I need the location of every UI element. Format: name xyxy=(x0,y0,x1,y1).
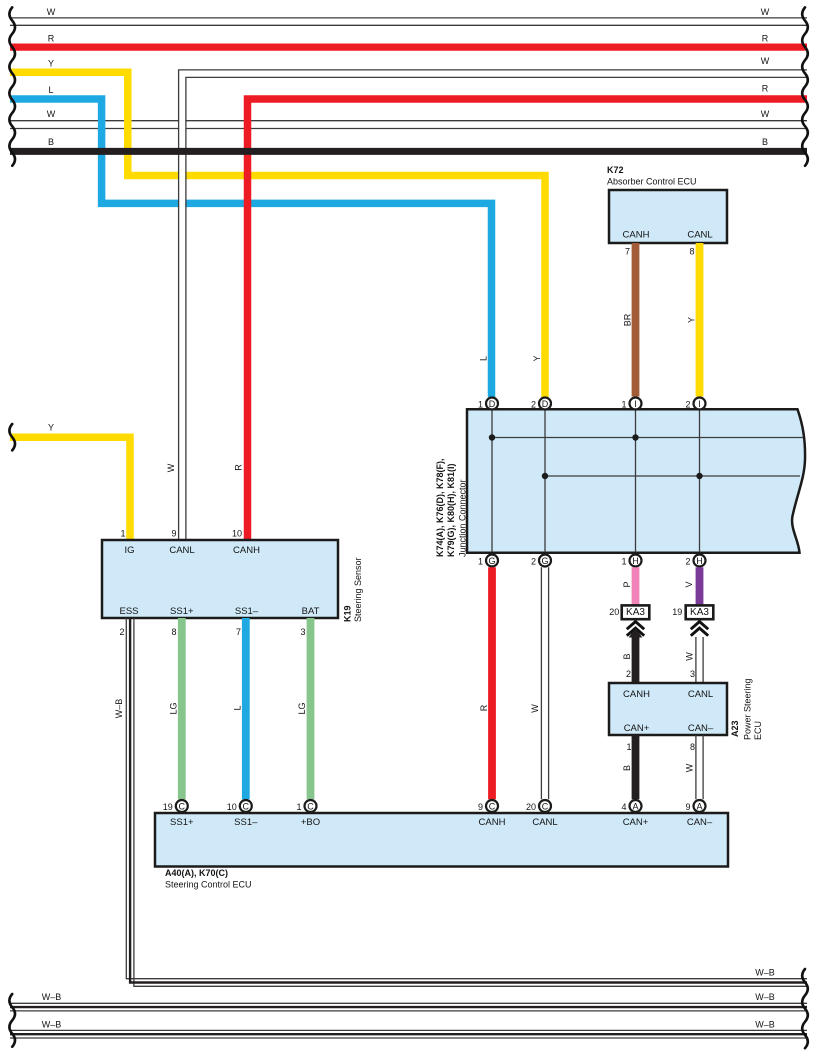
wire break squiggle left top xyxy=(9,7,15,165)
svg-text:3: 3 xyxy=(300,627,305,637)
svg-text:L: L xyxy=(479,356,489,361)
svg-text:R: R xyxy=(48,34,55,44)
svg-text:CAN+: CAN+ xyxy=(624,723,650,734)
svg-text:20: 20 xyxy=(526,802,536,812)
svg-text:K19: K19 xyxy=(343,605,353,622)
svg-text:1: 1 xyxy=(621,399,626,409)
ECU A40/K70 Steering Control ECU xyxy=(155,813,728,889)
wire R (red from right edge, bends down to steering sensor CANH) xyxy=(248,84,808,541)
svg-text:BAT: BAT xyxy=(302,606,320,617)
svg-text:Absorber Control ECU: Absorber Control ECU xyxy=(607,177,697,187)
svg-text:W: W xyxy=(530,704,540,713)
svg-text:Y: Y xyxy=(48,59,54,69)
junction internal wire 1-I to 1-H xyxy=(635,410,637,552)
svg-text:W–B: W–B xyxy=(755,968,775,978)
svg-text:7: 7 xyxy=(625,247,630,257)
wire R (upper red, full width) xyxy=(10,34,807,48)
svg-text:B: B xyxy=(622,765,632,771)
svg-text:A40(A), K70(C): A40(A), K70(C) xyxy=(165,868,228,878)
svg-text:W–B: W–B xyxy=(755,992,775,1002)
shield arrow chevrons below KA3 pin 20 xyxy=(627,622,644,636)
wire W (white pair, chevron to power steering CANL pin 3) xyxy=(685,637,704,683)
pin circle 4-A xyxy=(621,800,641,812)
svg-text:K79(G), K80(H), K81(I): K79(G), K80(H), K81(I) xyxy=(446,463,456,557)
pin circle 1-H xyxy=(621,555,641,567)
wire V (violet, junction 2-H to connector KA3 pin 19) xyxy=(684,567,700,605)
svg-text:19: 19 xyxy=(672,607,682,617)
ECU A23 Power Steering ECU xyxy=(609,678,763,740)
svg-text:CANH: CANH xyxy=(623,230,650,241)
pin circle 1-D xyxy=(478,398,498,410)
svg-text:B: B xyxy=(762,137,768,147)
svg-text:CANH: CANH xyxy=(233,545,260,556)
svg-text:CANL: CANL xyxy=(688,689,713,700)
svg-text:LG: LG xyxy=(297,702,307,714)
svg-text:R: R xyxy=(234,464,244,471)
wire L (blue from left edge, bends down then right to junction pin 1-D) xyxy=(10,85,492,397)
wire W-B (white/black ground bus 2, full width) xyxy=(10,992,807,1011)
wire P (pink, junction 1-H to connector KA3 pin 20) xyxy=(622,567,636,605)
svg-text:G: G xyxy=(541,556,548,566)
svg-text:IG: IG xyxy=(124,545,134,556)
wire B (black, chevron to power steering CANH pin 2) xyxy=(622,628,642,683)
junction internal wire 2-I to 2-H xyxy=(699,410,701,552)
wire Y (yellow, K72 CANL to junction 2-I) xyxy=(687,243,700,397)
wire break squiggle bottom right xyxy=(802,969,808,1048)
shield arrow chevrons below KA3 pin 19 xyxy=(691,622,708,636)
svg-text:KA3: KA3 xyxy=(690,607,709,618)
svg-text:CANL: CANL xyxy=(169,545,194,556)
svg-text:SS1+: SS1+ xyxy=(170,606,194,617)
svg-text:LG: LG xyxy=(168,702,178,714)
svg-text:G: G xyxy=(488,556,495,566)
wire break squiggle at Y wire left xyxy=(9,424,15,450)
pin circle 2-H xyxy=(685,555,705,567)
svg-text:D: D xyxy=(542,399,549,409)
svg-text:C: C xyxy=(243,801,250,811)
wire LG (light green, sensor SS1+ to steering control 19-C) xyxy=(168,618,182,799)
svg-text:W–B: W–B xyxy=(42,1019,62,1029)
svg-text:10: 10 xyxy=(232,529,242,539)
svg-text:L: L xyxy=(232,705,242,710)
svg-text:2: 2 xyxy=(531,556,536,566)
svg-text:8: 8 xyxy=(690,742,695,752)
svg-text:C: C xyxy=(307,801,314,811)
wire W (white pair from right edge, bends down to steering sensor CANL) xyxy=(179,56,807,540)
svg-text:W: W xyxy=(761,109,770,119)
pin circle 1-C xyxy=(296,800,316,812)
wire Y (yellow from left edge to steering sensor IG) xyxy=(10,423,130,541)
svg-text:3: 3 xyxy=(690,669,695,679)
svg-text:A: A xyxy=(632,801,638,811)
pin circle 2-I xyxy=(685,398,705,410)
svg-text:H: H xyxy=(632,556,639,566)
pin circle 9-C xyxy=(478,800,498,812)
junction connector box K74/K76/K78/K79/K80/K81 (torn right edge) xyxy=(435,409,805,557)
svg-text:Y: Y xyxy=(48,423,54,433)
ECU K72 Absorber Control ECU xyxy=(607,165,727,257)
svg-text:W: W xyxy=(47,109,56,119)
svg-text:Y: Y xyxy=(687,317,697,323)
junction internal CANL bus xyxy=(545,475,800,477)
svg-text:Junction Connector: Junction Connector xyxy=(458,479,468,557)
svg-text:CAN+: CAN+ xyxy=(623,817,649,828)
svg-text:9: 9 xyxy=(171,529,176,539)
svg-text:B: B xyxy=(622,653,632,659)
svg-text:D: D xyxy=(489,399,496,409)
svg-text:SS1–: SS1– xyxy=(235,606,259,617)
svg-text:2: 2 xyxy=(119,627,124,637)
svg-text:7: 7 xyxy=(236,627,241,637)
svg-text:A: A xyxy=(696,801,702,811)
svg-text:9: 9 xyxy=(685,802,690,812)
wire W-B (white/black ground bus 3, full width) xyxy=(10,1019,807,1038)
svg-text:Steering Sensor: Steering Sensor xyxy=(353,557,363,622)
wire break squiggle right top xyxy=(802,7,808,165)
svg-text:R: R xyxy=(762,84,769,94)
wire L (blue, sensor SS1- to steering control 10-C) xyxy=(232,618,246,799)
svg-text:ECU: ECU xyxy=(753,721,763,740)
wire B (black, power steering CAN+ pin 1 to steering control 4-A) xyxy=(622,735,636,799)
svg-text:1: 1 xyxy=(626,742,631,752)
svg-text:W: W xyxy=(47,7,56,17)
svg-text:CANH: CANH xyxy=(623,689,650,700)
pin circle 10-C xyxy=(227,800,252,812)
junction internal wire 1-D to 1-G xyxy=(491,410,493,552)
pin circle 2-D xyxy=(531,398,551,410)
svg-text:1: 1 xyxy=(478,399,483,409)
svg-text:BR: BR xyxy=(623,313,633,326)
svg-text:P: P xyxy=(622,581,632,587)
svg-text:W: W xyxy=(685,652,695,661)
svg-text:+BO: +BO xyxy=(301,817,320,828)
svg-text:4: 4 xyxy=(621,802,626,812)
wire LG (light green, sensor BAT to steering control 1-C) xyxy=(297,618,311,799)
svg-text:CAN–: CAN– xyxy=(687,817,713,828)
svg-text:2: 2 xyxy=(626,669,631,679)
wire W (top shielded pair, full width) xyxy=(10,7,807,25)
svg-text:SS1–: SS1– xyxy=(234,817,258,828)
wire W (second shielded pair, full width) xyxy=(10,109,807,129)
junction internal CANH bus xyxy=(492,437,803,439)
wire R (red, junction 1-G to steering control CANH) xyxy=(479,567,492,799)
pin circle 1-I xyxy=(621,398,641,410)
pin circle 9-A xyxy=(685,800,705,812)
svg-text:R: R xyxy=(479,704,489,711)
svg-text:I: I xyxy=(634,399,637,409)
pin circle 2-G xyxy=(531,555,551,567)
svg-text:W: W xyxy=(761,7,770,17)
svg-text:KA3: KA3 xyxy=(626,607,645,618)
svg-text:W–B: W–B xyxy=(755,1019,775,1029)
svg-text:K74(A), K76(D), K78(F),: K74(A), K76(D), K78(F), xyxy=(435,458,445,557)
svg-text:20: 20 xyxy=(609,607,619,617)
svg-text:W–B: W–B xyxy=(114,699,124,719)
svg-text:Y: Y xyxy=(532,355,542,361)
svg-text:8: 8 xyxy=(689,247,694,257)
svg-text:19: 19 xyxy=(163,802,173,812)
svg-text:Steering Control ECU: Steering Control ECU xyxy=(165,879,252,889)
svg-text:R: R xyxy=(762,34,769,44)
svg-text:2: 2 xyxy=(685,556,690,566)
svg-text:W: W xyxy=(761,56,770,66)
svg-text:CAN–: CAN– xyxy=(688,723,714,734)
pin circle 20-C xyxy=(526,800,551,812)
svg-text:2: 2 xyxy=(531,399,536,409)
svg-text:W: W xyxy=(166,463,176,472)
svg-text:ESS: ESS xyxy=(119,606,138,617)
svg-text:8: 8 xyxy=(171,627,176,637)
svg-text:1: 1 xyxy=(296,802,301,812)
svg-text:1: 1 xyxy=(621,556,626,566)
pin circle 1-G xyxy=(478,555,498,567)
junction node dot 1-I/CANH xyxy=(632,434,638,440)
wire B (black, full width) xyxy=(10,137,807,151)
svg-text:10: 10 xyxy=(227,802,237,812)
connector KA3 (pin 19) xyxy=(672,605,713,619)
wire break squiggle bottom left xyxy=(9,994,15,1047)
junction node dot 2-D/CANL xyxy=(542,473,548,479)
wire W (white pair, power steering CAN- pin 8 to steering control 9-A) xyxy=(685,735,704,799)
svg-text:H: H xyxy=(696,556,703,566)
svg-text:CANL: CANL xyxy=(532,817,557,828)
svg-text:V: V xyxy=(684,581,694,587)
connector KA3 (pin 20) xyxy=(609,605,649,619)
svg-text:A23: A23 xyxy=(730,720,740,737)
svg-text:I: I xyxy=(698,399,701,409)
svg-text:L: L xyxy=(48,85,53,95)
junction internal wire 2-D to 2-G xyxy=(544,410,546,552)
svg-text:SS1+: SS1+ xyxy=(170,817,194,828)
svg-text:W–B: W–B xyxy=(42,992,62,1002)
svg-text:Power Steering: Power Steering xyxy=(743,678,753,740)
wire W-B (white/black, sensor ESS down and right to edge) xyxy=(114,618,807,986)
svg-text:K72: K72 xyxy=(607,165,624,175)
pin circle 19-C xyxy=(163,800,188,812)
svg-text:CANL: CANL xyxy=(687,230,712,241)
svg-text:1: 1 xyxy=(120,529,125,539)
svg-text:2: 2 xyxy=(685,399,690,409)
wire W (white pair, junction 2-G to steering control CANL) xyxy=(530,567,549,799)
svg-text:C: C xyxy=(489,801,496,811)
svg-text:C: C xyxy=(179,801,186,811)
svg-text:1: 1 xyxy=(478,556,483,566)
junction node dot 2-H/CANL xyxy=(696,473,702,479)
wire BR (brown, K72 CANH to junction 1-I) xyxy=(623,243,636,397)
svg-text:W: W xyxy=(685,763,695,772)
svg-text:CANH: CANH xyxy=(479,817,506,828)
svg-text:9: 9 xyxy=(478,802,483,812)
junction node dot 1-D/CANH xyxy=(489,434,495,440)
svg-text:B: B xyxy=(48,137,54,147)
svg-text:C: C xyxy=(542,801,549,811)
ECU K19 Steering Sensor xyxy=(102,529,363,638)
wire Y (yellow from left edge, bends down then right to junction pin 2-D) xyxy=(10,59,545,398)
